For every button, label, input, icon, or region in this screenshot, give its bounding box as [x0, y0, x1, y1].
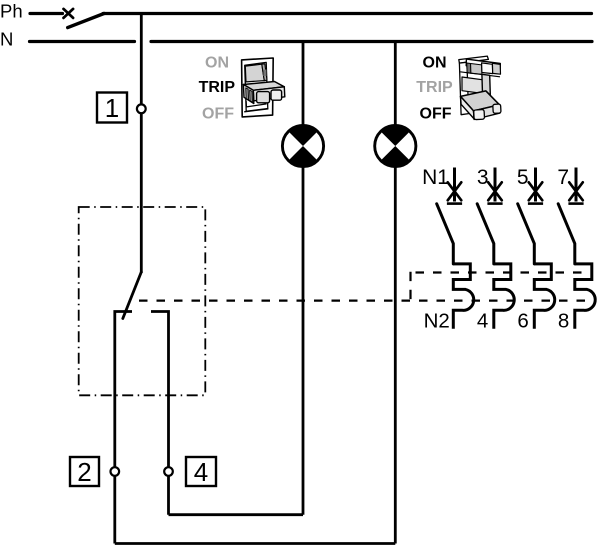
lamp L1 — [282, 125, 323, 166]
wire bottom from 2 to lamp 2 — [115, 542, 396, 545]
pole 4 top terminal stub — [575, 168, 578, 202]
svg-text:6: 6 — [517, 309, 528, 332]
svg-text:TRIP: TRIP — [199, 79, 236, 96]
pole 4 blade — [558, 204, 575, 264]
pole 2 fixed contact bar — [487, 202, 502, 205]
wire lamp 1 vertical — [302, 42, 305, 515]
pole 4 terminal X — [569, 182, 583, 200]
terminal X on Ph — [64, 9, 74, 18]
pole 3 fixed contact bar — [528, 202, 543, 205]
svg-text:4: 4 — [477, 309, 488, 332]
svg-text:8: 8 — [558, 309, 569, 332]
pole 1 fixed contact bar — [447, 202, 462, 205]
linkage dashed line upper (breaker) — [411, 271, 594, 273]
breaker pole 3 (5/6) — [517, 166, 555, 332]
pole 2 trip element — [494, 264, 514, 329]
svg-text:3: 3 — [477, 166, 489, 189]
RCD switch blade — [123, 272, 142, 319]
trip linkage dashed line — [136, 300, 593, 302]
pole 4 fixed contact bar — [568, 202, 583, 205]
toggle switch graphic left (TRIP position) — [242, 58, 285, 117]
svg-text:N2: N2 — [424, 309, 450, 332]
wire N bus left — [30, 40, 135, 43]
pole 2 top terminal stub — [494, 168, 497, 202]
pole 3 blade — [518, 204, 535, 264]
pole 3 top terminal stub — [534, 168, 537, 202]
breaker pole 1 (N1/N2) — [422, 166, 474, 332]
wire from Ph down to RCD coil (node 1 drop) — [140, 14, 143, 274]
RCD left contact seat + wire to 2 — [115, 312, 132, 544]
RCD enclosure (dash-dot box) — [79, 207, 206, 395]
terminal box 4 — [186, 457, 216, 487]
svg-text:ON: ON — [423, 55, 447, 72]
svg-text:7: 7 — [557, 166, 569, 189]
wire N bus right — [151, 40, 592, 43]
node 2 circle — [111, 467, 120, 476]
toggle switch graphic right (OFF position) — [459, 56, 501, 120]
svg-text:ON: ON — [205, 55, 229, 72]
svg-text:4: 4 — [194, 457, 208, 487]
pole 1 trip element — [453, 264, 473, 329]
svg-text:OFF: OFF — [420, 106, 452, 123]
lamp L2 — [375, 125, 416, 166]
linkage dashed connector vertical — [409, 272, 411, 300]
wire from seat 4 to lamp 1 — [169, 513, 304, 516]
svg-text:Ph: Ph — [0, 1, 23, 22]
node 4 circle — [164, 467, 173, 476]
breaker pole 4 (7/8) — [557, 166, 595, 332]
pole 4 trip element — [575, 264, 595, 329]
svg-text:1: 1 — [105, 93, 119, 123]
pole 3 terminal X — [529, 182, 543, 200]
pole 1 blade — [437, 204, 454, 264]
breaker pole 2 (3/4) — [477, 166, 514, 332]
wire lamp 2 vertical — [394, 42, 397, 544]
svg-text:5: 5 — [517, 166, 529, 189]
svg-text:N1: N1 — [422, 166, 449, 189]
svg-text:N: N — [0, 29, 13, 50]
svg-text:2: 2 — [77, 457, 91, 487]
switch blade on Ph line (open) — [68, 14, 104, 28]
pole 3 trip element — [534, 264, 554, 329]
terminal box 2 — [70, 457, 99, 487]
pole 2 blade — [477, 204, 494, 264]
wire Ph stub — [30, 12, 63, 15]
pole 1 terminal X — [448, 182, 462, 200]
terminal box 1 — [97, 93, 127, 124]
pole 2 terminal X — [488, 182, 502, 200]
RCD right contact seat + wire to 4 — [151, 312, 169, 515]
svg-text:OFF: OFF — [202, 106, 234, 123]
wire Ph bus — [103, 12, 592, 15]
node 1 circle — [137, 104, 146, 113]
pole 1 top terminal stub — [453, 168, 456, 202]
svg-text:TRIP: TRIP — [416, 79, 453, 96]
